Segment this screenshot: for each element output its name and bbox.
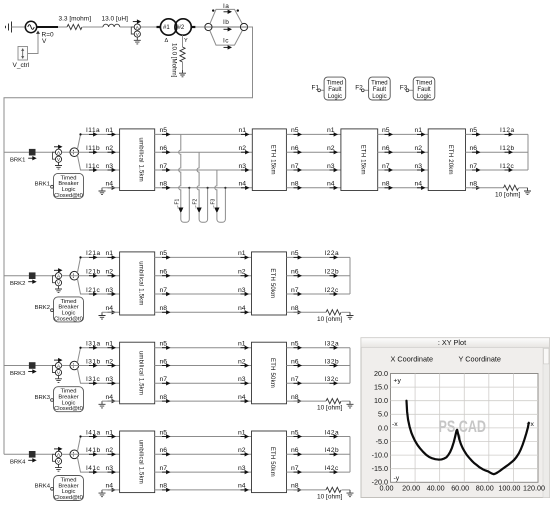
wire phase b <box>70 275 120 277</box>
svg-text:I11b: I11b <box>86 145 100 152</box>
wire <box>36 275 55 277</box>
svg-text:umbilical 1.5km: umbilical 1.5km <box>137 351 143 395</box>
wire n8 to resistor <box>287 489 327 491</box>
svg-text:-x: -x <box>392 421 398 428</box>
timed fault logic block F1 <box>324 77 346 100</box>
wire phase a fan <box>77 437 119 452</box>
wire receiving-end tie <box>349 437 351 473</box>
wire phase b <box>205 26 248 28</box>
svg-text:ETH 20km: ETH 20km <box>447 145 453 175</box>
svg-text:ETH 50km: ETH 50km <box>269 268 275 298</box>
svg-text:BRK2: BRK2 <box>10 281 25 287</box>
svg-text:20.00: 20.00 <box>402 484 420 493</box>
line section ETH 50km row 3 <box>252 342 287 404</box>
breaker BRK1 <box>28 149 37 161</box>
svg-text:I12c: I12c <box>500 163 515 170</box>
svg-text:→F3: →F3 <box>210 198 216 209</box>
wire <box>36 151 55 153</box>
wire from bus <box>4 151 29 153</box>
ammeter/voltmeter row 2 <box>53 268 63 293</box>
cable section umbilical 1.5km row 1 <box>120 129 155 191</box>
wire phase a fan <box>210 9 243 24</box>
svg-text:10 [ohm]: 10 [ohm] <box>317 405 342 412</box>
scrollbar <box>543 348 550 498</box>
svg-text:umbilical 1.5km: umbilical 1.5km <box>137 440 143 484</box>
plot curve <box>406 401 528 474</box>
wire from bus <box>4 275 29 277</box>
wire <box>140 26 157 28</box>
timed breaker logic block BRK3 <box>54 387 84 412</box>
svg-text:I32a: I32a <box>325 341 340 348</box>
svg-text:10.0 [Mohm]: 10.0 [Mohm] <box>171 43 178 78</box>
wire V_ctrl to source control <box>28 34 39 54</box>
resistor 10 ohm row 3 <box>326 399 341 404</box>
wire <box>191 26 195 28</box>
breaker BRK2 <box>28 272 37 284</box>
svg-text:10 [ohm]: 10 [ohm] <box>317 316 342 323</box>
svg-text:Y: Y <box>184 38 188 44</box>
svg-text:umbilical 1.5km: umbilical 1.5km <box>137 261 143 305</box>
svg-text:I12a: I12a <box>500 127 515 134</box>
wire <box>36 453 55 455</box>
svg-text:Timed: Timed <box>371 80 387 86</box>
svg-text:100.00: 100.00 <box>498 484 520 493</box>
wire phase b <box>70 365 120 367</box>
svg-text:#2: #2 <box>178 25 185 31</box>
wires umbilical to ETH 50km <box>155 347 252 349</box>
resistor 10 ohm row 1 <box>504 185 519 190</box>
three-phase tap row 2 <box>70 271 79 280</box>
V_ctrl slider block <box>18 47 28 61</box>
ground <box>347 401 354 408</box>
svg-text:Closed@t0: Closed@t0 <box>54 193 83 199</box>
cursor mark <box>459 434 461 440</box>
svg-text:+y: +y <box>394 378 402 385</box>
svg-text:X Coordinate: X Coordinate <box>391 355 434 364</box>
timed breaker logic block BRK4 <box>54 476 84 501</box>
svg-text:BRK1: BRK1 <box>10 158 25 164</box>
wire phase c fan <box>77 155 119 170</box>
plot grid <box>391 374 539 483</box>
svg-text:13.0 [uH]: 13.0 [uH] <box>102 16 129 23</box>
svg-text:10 [ohm]: 10 [ohm] <box>317 493 342 500</box>
wires ETH 15km to ETH 15km <box>286 133 341 135</box>
svg-text:ETH 50km: ETH 50km <box>269 358 275 388</box>
ammeter/voltmeter row 1 <box>53 145 63 170</box>
wire <box>62 453 70 455</box>
svg-text:I11c: I11c <box>86 163 100 170</box>
timed fault logic block F3 <box>413 77 435 100</box>
wire n8 to resistor <box>287 311 327 313</box>
wire n4 <box>102 400 120 402</box>
wire <box>62 365 70 367</box>
svg-text:Fault: Fault <box>373 87 387 93</box>
svg-text:-15.0: -15.0 <box>372 464 388 473</box>
svg-text:BRK1: BRK1 <box>35 182 50 188</box>
svg-text:BRK2: BRK2 <box>35 305 50 311</box>
node dots phase a <box>212 9 214 11</box>
svg-text:V: V <box>42 38 47 45</box>
breaker BRK3 <box>28 362 37 374</box>
svg-text:10.0: 10.0 <box>374 396 388 405</box>
wire phase a fan <box>77 134 119 149</box>
cable section umbilical 1.5km row 2 <box>120 252 155 315</box>
svg-text:I22b: I22b <box>325 269 340 276</box>
svg-text:Closed@t0: Closed@t0 <box>54 316 83 322</box>
wire <box>364 89 368 91</box>
wire receiving-end tie <box>349 257 351 294</box>
svg-text:Timed: Timed <box>416 80 432 86</box>
three-phase tap (left) <box>205 23 212 30</box>
svg-text:I12b: I12b <box>500 145 515 152</box>
svg-text:Ic: Ic <box>223 37 229 44</box>
ground (n4 input) <box>99 401 106 408</box>
svg-text:Ia: Ia <box>223 3 229 10</box>
wire <box>409 89 413 91</box>
svg-text:Y Coordinate: Y Coordinate <box>459 355 501 364</box>
svg-text:60.00: 60.00 <box>451 484 469 493</box>
svg-text:Timed: Timed <box>327 80 343 86</box>
breaker BRK4 <box>28 451 37 463</box>
fault branch F3 <box>215 170 217 208</box>
svg-text:15.0: 15.0 <box>374 383 388 392</box>
svg-text:F3: F3 <box>400 84 408 91</box>
timed breaker logic block BRK2 <box>54 297 84 322</box>
wire phase a fan <box>77 348 119 363</box>
svg-text:20.0: 20.0 <box>374 369 388 378</box>
resistor 3.3 mohm <box>67 24 82 29</box>
ground <box>347 490 354 497</box>
svg-text:I32c: I32c <box>325 376 340 383</box>
wire from bus <box>4 453 29 455</box>
svg-text:ETH 50km: ETH 50km <box>269 447 275 477</box>
svg-text:40.00: 40.00 <box>427 484 445 493</box>
three-phase tap row 3 <box>70 361 79 370</box>
resistor 10 ohm row 2 <box>326 310 341 315</box>
svg-text:0.0: 0.0 <box>378 423 388 432</box>
cable section umbilical 1.5km row 3 <box>120 342 155 404</box>
wire phase b <box>70 151 120 153</box>
wire <box>321 89 325 91</box>
fault branch F2 <box>197 152 199 207</box>
svg-text:→F1: →F1 <box>174 198 180 209</box>
svg-text:#1: #1 <box>163 25 170 31</box>
wire <box>83 26 104 28</box>
resistor 10.0 Mohm to ground <box>182 35 184 47</box>
timed breaker logic block BRK1 <box>54 173 84 198</box>
svg-text:-y: -y <box>394 475 400 482</box>
wires umbilical to ETH 50km <box>155 256 252 258</box>
svg-text:PS CAD: PS CAD <box>439 417 487 436</box>
svg-text:I42a: I42a <box>325 429 340 436</box>
cable section umbilical 1.5km row 4 <box>120 431 155 493</box>
svg-text:F1: F1 <box>312 84 320 91</box>
ground (n4 input) <box>99 490 106 497</box>
wire receiving-end tie <box>527 134 529 170</box>
wires umbilical to ETH 15km <box>155 133 253 135</box>
wires ETH 50km outputs <box>287 436 351 438</box>
wire <box>120 26 134 28</box>
svg-text:Fault: Fault <box>328 87 342 93</box>
wires ETH 20km outputs <box>466 133 529 135</box>
ammeter/voltmeter (source side) <box>131 19 141 44</box>
svg-text:F2: F2 <box>355 84 363 91</box>
wire <box>62 275 70 277</box>
svg-text:umbilical 1.5km: umbilical 1.5km <box>137 138 143 182</box>
three-phase tap row 4 <box>70 450 79 459</box>
wire (thick) source to resistor <box>37 26 58 28</box>
wire phase c fan <box>210 31 243 46</box>
line section ETH 15km (2) row 1 <box>341 129 378 191</box>
wire phase c fan <box>77 368 119 383</box>
line section ETH 50km row 2 <box>252 252 287 315</box>
svg-text:Logic: Logic <box>417 94 431 100</box>
line section ETH 50km row 4 <box>252 431 287 493</box>
wire n4 <box>102 489 120 491</box>
svg-text:0.00: 0.00 <box>380 484 394 493</box>
svg-text:I42c: I42c <box>325 465 340 472</box>
wire phase b <box>70 453 120 455</box>
svg-text:120.00: 120.00 <box>523 484 545 493</box>
wires umbilical to ETH 50km <box>155 436 252 438</box>
wires ETH 15km to ETH 20km <box>378 133 429 135</box>
ground (source return, left edge) <box>6 22 12 33</box>
svg-text:: XY Plot: : XY Plot <box>438 338 466 347</box>
svg-text:10 [ohm]: 10 [ohm] <box>495 191 520 198</box>
svg-text:Δ: Δ <box>165 38 169 44</box>
svg-text:3.3 [mohm]: 3.3 [mohm] <box>59 16 92 23</box>
svg-text:I11a: I11a <box>86 127 100 134</box>
svg-text:5.0: 5.0 <box>378 410 388 419</box>
AC source V1 <box>25 21 36 32</box>
svg-text:-10.0: -10.0 <box>372 451 388 460</box>
wire phase c fan <box>77 279 119 295</box>
three-phase tap (right) <box>240 23 247 30</box>
wire n4 <box>102 311 120 313</box>
ground (n4 input) <box>99 312 106 319</box>
svg-text:I22c: I22c <box>325 287 340 294</box>
svg-text:I22a: I22a <box>325 250 340 257</box>
wire phase a fan <box>77 257 119 273</box>
svg-text:Closed@t0: Closed@t0 <box>54 406 83 412</box>
ammeter/voltmeter row 3 <box>53 358 63 383</box>
wire n4 <box>102 187 120 189</box>
svg-text:V_ctrl: V_ctrl <box>13 62 30 69</box>
svg-text:80.00: 80.00 <box>476 484 494 493</box>
wire receiving-end tie <box>349 348 351 384</box>
svg-text:BRK3: BRK3 <box>35 395 51 401</box>
wire n8 to resistor <box>287 400 327 402</box>
panel title bar <box>0 0 1 1</box>
inductor 13.0 uH <box>103 24 120 27</box>
wires ETH 50km outputs <box>287 347 351 349</box>
timed fault logic block F2 <box>369 77 391 100</box>
svg-text:Ib: Ib <box>223 19 229 26</box>
svg-text:Logic: Logic <box>328 94 342 100</box>
wire from bus <box>4 365 29 367</box>
svg-text:I32b: I32b <box>325 358 340 365</box>
three-phase tap row 1 <box>70 148 79 157</box>
wire <box>36 365 55 367</box>
fault branch F1 <box>179 134 181 207</box>
line section ETH 15km (1) row 1 <box>252 129 286 191</box>
wire <box>12 26 26 28</box>
wire <box>62 151 70 153</box>
svg-text:BRK3: BRK3 <box>10 371 26 377</box>
svg-text:I42b: I42b <box>325 447 340 454</box>
line section ETH 20km row 1 <box>428 129 465 191</box>
plot area <box>391 374 539 483</box>
svg-text:BRK4: BRK4 <box>10 460 26 466</box>
svg-text:ETH 15km: ETH 15km <box>270 145 276 175</box>
wire phase c fan <box>77 457 119 472</box>
svg-text:Closed@t0: Closed@t0 <box>54 495 83 501</box>
ammeter/voltmeter row 4 <box>53 447 63 472</box>
ground <box>179 70 186 77</box>
ground <box>524 188 531 195</box>
ground <box>347 312 354 319</box>
transformer T1 <box>160 19 176 35</box>
svg-text:ETH 15km: ETH 15km <box>360 145 366 175</box>
svg-text:-5.0: -5.0 <box>376 437 388 446</box>
svg-text:BRK4: BRK4 <box>35 484 51 490</box>
XY plot panel <box>361 338 550 498</box>
wire to feeder bus <box>4 27 253 454</box>
svg-text:Fault: Fault <box>417 87 431 93</box>
resistor 10 ohm row 4 <box>326 487 341 492</box>
svg-text:Logic: Logic <box>372 94 386 100</box>
wire n8 to resistor <box>466 187 504 189</box>
svg-text:→F2: →F2 <box>193 198 199 209</box>
wires ETH 50km outputs <box>287 256 351 258</box>
ground (n4 input) <box>99 188 106 195</box>
